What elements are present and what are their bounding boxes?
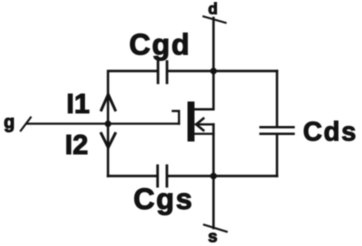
capacitor Cgs plates <box>158 166 167 187</box>
transistor M1 source lead <box>195 133 214 135</box>
svg-text:g: g <box>4 112 15 132</box>
svg-text:Cds: Cds <box>303 117 358 147</box>
terminal g tick <box>21 117 31 130</box>
transistor M1 body arrowhead <box>196 119 203 131</box>
svg-text:d: d <box>208 1 217 18</box>
svg-text:I1: I1 <box>66 88 89 119</box>
wire top node: left segment (Cgd row) <box>108 71 157 176</box>
svg-text:Cgd: Cgd <box>129 28 191 61</box>
transistor M1 gate electrode <box>173 111 179 124</box>
svg-text:s: s <box>208 227 217 246</box>
junction dot: drain node <box>210 68 217 75</box>
svg-text:I2: I2 <box>65 129 88 160</box>
wire top node: right segment to right branch corner <box>168 70 277 72</box>
transistor M1 drain lead + drain vertical wire to d terminal <box>195 18 214 109</box>
wire gate <box>28 123 180 125</box>
capacitor Cds plates <box>261 127 294 134</box>
current arrow I2 head <box>101 134 115 148</box>
wire bottom node (Cgs row) <box>168 175 277 177</box>
current arrow I1 head <box>101 94 115 110</box>
terminal s tick <box>204 225 227 232</box>
wire right branch upper <box>276 71 278 126</box>
junction dot: source node <box>210 173 217 180</box>
transistor M1 channel bar <box>188 102 195 142</box>
svg-text:Cgs: Cgs <box>133 183 193 216</box>
transistor M1 body arrow lead <box>196 123 214 125</box>
capacitor Cgd plates <box>158 62 167 83</box>
terminal d tick <box>204 16 226 22</box>
junction dot: gate node <box>105 121 112 128</box>
wire source vertical to s terminal <box>212 124 214 228</box>
wire right branch lower <box>276 135 278 176</box>
